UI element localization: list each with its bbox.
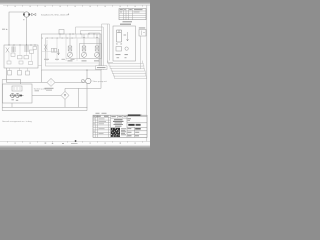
wire filter to riser <box>55 81 87 83</box>
filter F2 element <box>64 94 66 96</box>
motor column 2 valve <box>82 46 86 51</box>
wire main riser <box>86 70 88 108</box>
motor column 1 valve <box>68 46 72 51</box>
node riser dot 3 <box>97 37 98 38</box>
label detail title <box>120 24 131 25</box>
label row5 a <box>128 131 132 134</box>
label rev header <box>120 8 143 11</box>
node riser dot 2 <box>84 37 85 38</box>
label drawing number <box>128 124 134 126</box>
label tandem pump line2 <box>35 90 40 91</box>
wire pump outlet <box>32 95 61 97</box>
node triangle A <box>68 13 70 15</box>
title right grid <box>127 114 147 137</box>
label cell 2 <box>55 59 59 60</box>
sheet background <box>0 0 150 150</box>
sensor symbol <box>142 31 146 36</box>
valve V3 <box>18 56 23 59</box>
parts list rows <box>93 118 111 135</box>
relief valve hang 1 <box>8 71 12 76</box>
label column 2 <box>82 60 87 61</box>
motor column 1 riser <box>69 38 71 46</box>
node riser top <box>86 69 87 70</box>
motor M1 <box>24 12 29 17</box>
pump box <box>80 44 102 59</box>
label detail text1 <box>116 54 121 55</box>
pump TP2 <box>16 94 20 98</box>
motor column 3 circle <box>95 52 100 57</box>
sheet bottom border line <box>0 140 150 142</box>
relief valve hang 3 <box>26 71 30 75</box>
label parts cells <box>94 115 109 118</box>
revision table rows <box>119 11 146 18</box>
label filter F1 line2 <box>46 90 52 91</box>
motor column 2 circle <box>82 52 87 57</box>
svg-text:Tandem pump: Tandem pump <box>34 88 48 90</box>
label box text <box>97 67 106 68</box>
wire filter F2 top <box>65 70 101 107</box>
accumulator cylinder <box>116 30 122 45</box>
wire inner block rect <box>46 38 100 66</box>
valve V2 <box>11 53 15 56</box>
label title cell small2 <box>128 119 131 122</box>
gauge G1 <box>125 47 128 50</box>
valve V5 <box>30 50 34 53</box>
label parts header above <box>96 112 107 115</box>
motor port A <box>23 14 25 16</box>
label row5 b <box>135 131 139 134</box>
label tandem mark2 <box>16 100 18 101</box>
label cell 1 <box>44 59 49 60</box>
wire return bottom 1 <box>2 106 87 108</box>
wire filter F2 bottom <box>64 99 66 107</box>
motor column 3 arrow <box>95 52 99 57</box>
label row4 b <box>135 128 141 129</box>
drain arrow <box>58 49 60 55</box>
filter F1 <box>47 78 55 86</box>
label column 1 <box>68 60 73 61</box>
valve V6 <box>33 47 37 50</box>
sheet right border line <box>146 5 148 141</box>
wire return left top <box>2 80 20 85</box>
sheet top border line <box>3 4 150 6</box>
svg-text:Gear pump unit: Gear pump unit <box>93 80 107 83</box>
relief valve top <box>59 30 64 35</box>
filter F2 <box>61 91 69 99</box>
motor column 2 arrow <box>82 52 86 57</box>
node triangle vent <box>6 29 8 31</box>
label cell 3 <box>62 59 65 60</box>
label detail text2 <box>125 54 128 55</box>
parts list columns <box>95 115 110 137</box>
label mid header <box>111 115 126 118</box>
pump shaft dot <box>20 95 22 97</box>
valve detail box <box>116 47 122 52</box>
wire motor loop left <box>9 12 24 45</box>
label title cell small <box>128 117 132 120</box>
node dots manifold top <box>8 44 35 45</box>
regulator marks <box>14 87 20 90</box>
label detail text3 <box>117 57 120 58</box>
wire pilot line <box>42 51 58 53</box>
motor shaft symbol <box>30 13 36 16</box>
bottom zone digits <box>15 143 136 144</box>
title block outer <box>93 115 147 137</box>
pump aux P3 <box>86 78 91 83</box>
label company block <box>113 119 124 122</box>
label under table <box>123 21 133 22</box>
valve V8 <box>19 61 23 64</box>
regulator box <box>12 86 22 91</box>
valve cluster left <box>12 47 15 53</box>
motor column 3 valve <box>95 46 99 51</box>
motor port B <box>28 14 30 16</box>
valve manifold block <box>4 45 38 68</box>
node ticks grid top <box>42 37 73 40</box>
label vent <box>2 29 5 30</box>
svg-text:General arrangement acc. to dw: General arrangement acc. to dwg <box>2 120 32 123</box>
bottom scale mark <box>75 140 77 142</box>
wire detail frame verticals <box>102 24 113 63</box>
label box swing line <box>96 66 108 70</box>
wire bottom rail <box>66 58 80 60</box>
wire hang stubs <box>10 68 28 71</box>
label cell 4 <box>71 59 75 60</box>
label column 3 <box>94 60 99 61</box>
wire bus stubs <box>60 34 94 38</box>
relief valve hang 2 <box>18 71 22 76</box>
valve cell symbol 1 <box>44 45 47 52</box>
valve cell symbol 3 <box>54 48 56 52</box>
motor drain mark <box>23 19 24 20</box>
valve V9 <box>29 62 33 65</box>
revision table <box>119 9 146 20</box>
wire manifold link <box>38 65 42 67</box>
wire motor return <box>26 17 28 45</box>
label detail small <box>124 35 127 36</box>
motor column 1 circle <box>68 52 73 57</box>
label row6 a <box>128 135 132 136</box>
top zone digits <box>15 6 136 7</box>
wire outer block rect <box>42 34 102 70</box>
motor column 2 riser <box>83 34 85 46</box>
top zone ticks <box>8 5 143 6</box>
wire loop U2 <box>81 31 102 71</box>
valve cluster right <box>25 46 28 53</box>
label rev rows <box>120 11 140 14</box>
wire suction line <box>7 68 48 82</box>
wire manifold internals <box>9 45 32 61</box>
filter F1 element <box>50 80 52 86</box>
wire return left vertical <box>1 80 3 111</box>
label tandem mark1 <box>12 99 14 100</box>
label drawing number b <box>136 124 141 126</box>
revision table columns <box>124 9 133 20</box>
wire pump link <box>10 94 24 98</box>
label drawing title strip <box>128 114 141 116</box>
node dots bus <box>60 34 95 35</box>
pump TP1 <box>11 94 15 98</box>
detail box <box>113 26 136 61</box>
wire loop U3 <box>89 33 100 66</box>
motor column 3 riser <box>96 34 98 46</box>
gauge G2 <box>81 79 84 82</box>
wire loop U1 <box>76 27 104 70</box>
wire return bottom 2 <box>2 107 87 110</box>
arrow gauge line <box>127 32 129 41</box>
motor column 1 arrow <box>68 52 72 57</box>
label detail text4 <box>125 57 127 58</box>
QR code <box>111 128 120 137</box>
label row6 b <box>135 135 139 136</box>
title mid header row <box>111 115 128 118</box>
sensor box <box>139 30 146 37</box>
label right of QR <box>121 128 126 135</box>
valve V7 <box>7 61 11 64</box>
bottom zone ticks <box>8 141 143 142</box>
wire pump label leader <box>91 80 93 82</box>
stacked sheet slivers <box>108 61 147 79</box>
label row4 a <box>128 127 132 130</box>
gauge G2 needle <box>82 80 83 81</box>
label filter F1 <box>45 88 54 89</box>
valve grid lines <box>46 39 98 64</box>
label small box title <box>139 27 145 28</box>
wire sensor drop <box>140 36 142 69</box>
tandem pump unit box <box>3 84 33 103</box>
wire pump drain <box>11 103 13 107</box>
valve V1 <box>6 48 9 53</box>
valve cell symbol 2 <box>51 48 53 52</box>
valve V4 <box>24 56 29 59</box>
